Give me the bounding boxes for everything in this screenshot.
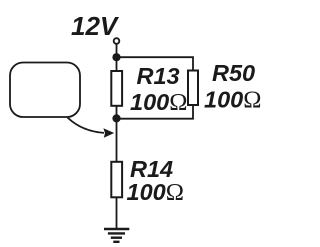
callout arrow (curved leader) — [68, 118, 105, 133]
svg-text:R13: R13 — [137, 63, 180, 89]
wire R14 to ground — [116, 197, 118, 229]
svg-text:100Ω: 100Ω — [130, 89, 187, 116]
svg-text:R50: R50 — [212, 60, 255, 86]
wire R50 branch vertical bottom, back to node B — [117, 105, 194, 119]
ground symbol — [104, 229, 129, 242]
wire node B to R14 — [116, 118, 118, 162]
node A junction dot — [112, 53, 120, 61]
svg-text:100Ω: 100Ω — [204, 87, 261, 114]
callout bubble — [10, 63, 80, 118]
resistor R50 — [188, 71, 198, 106]
resistor R13 — [111, 71, 122, 106]
resistor R14 — [111, 162, 122, 198]
wire terminal to node A — [116, 44, 118, 57]
node B junction dot — [112, 114, 120, 122]
callout arrowhead — [103, 128, 114, 137]
wire node A to R50 branch (top) — [117, 57, 194, 71]
wire R13 to node B — [116, 106, 118, 119]
svg-text:100Ω: 100Ω — [127, 179, 184, 206]
wire node A to R13 — [116, 57, 118, 71]
svg-text:12V: 12V — [71, 11, 120, 41]
terminal (open circle) — [114, 38, 120, 44]
